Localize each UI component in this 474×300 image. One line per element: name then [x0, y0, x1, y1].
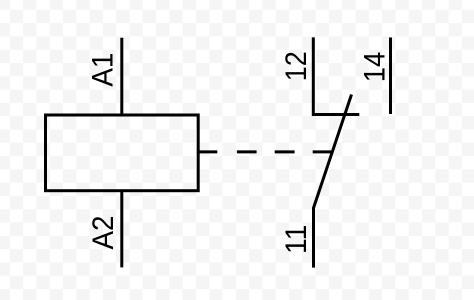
wire terminal 14: [389, 38, 392, 115]
coil K1 rectangle: [46, 115, 199, 191]
wire mechanical linkage (dashed): [198, 150, 331, 153]
svg-text:A1: A1: [87, 53, 120, 87]
svg-text:12: 12: [280, 51, 313, 81]
svg-text:11: 11: [280, 225, 313, 255]
contact lever and wire terminal 11: [314, 95, 352, 268]
wire A1 terminal lead: [120, 38, 123, 116]
contact seat and wire terminal 12: [313, 37, 359, 114]
svg-text:A2: A2: [87, 216, 120, 250]
svg-text:14: 14: [359, 52, 392, 83]
wire A2 terminal lead: [120, 191, 123, 268]
